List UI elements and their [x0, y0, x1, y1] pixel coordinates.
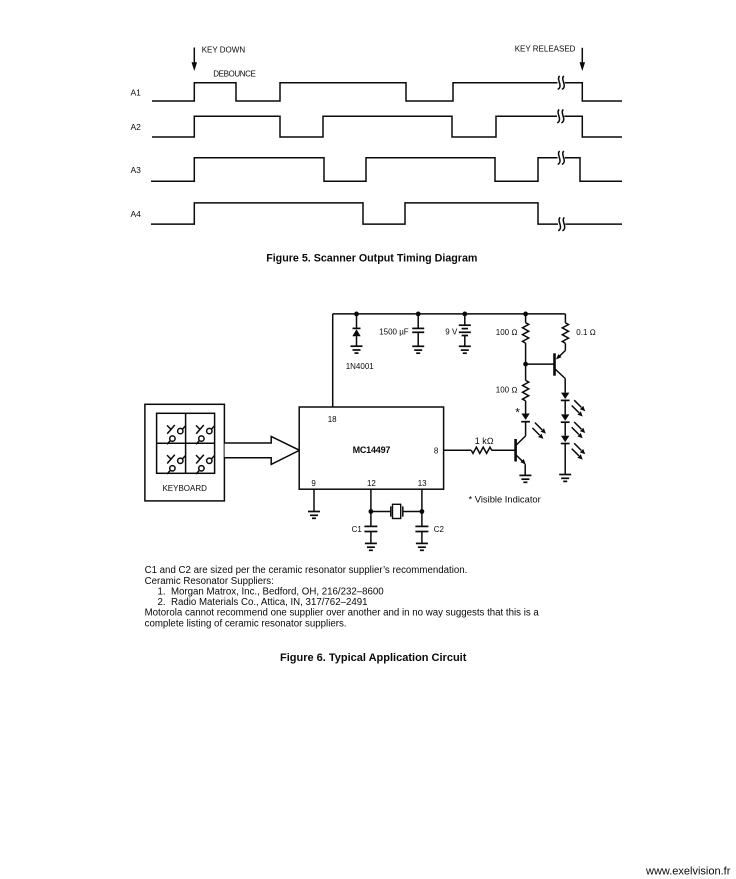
ground C2: [416, 543, 428, 550]
wire pin 9: [313, 489, 315, 511]
wire diode branch: [356, 314, 358, 329]
node junction pin 13: [420, 509, 425, 514]
crystal Y1 ceramic resonator: [391, 504, 403, 518]
svg-text:KEY DOWN: KEY DOWN: [202, 45, 246, 54]
wire pin 13: [421, 489, 423, 511]
node junction pin 12: [369, 509, 374, 514]
svg-text:C1 and C2 are sized per the ce: C1 and C2 are sized per the ceramic reso…: [145, 565, 468, 576]
key switch S1: [167, 425, 185, 444]
wire R2 to Q2 emitter: [556, 343, 566, 359]
key switch S3: [167, 455, 185, 474]
wire D4 to D5: [564, 422, 566, 436]
capacitor C2: [415, 512, 428, 544]
svg-text:Figure 5. Scanner Output Timin: Figure 5. Scanner Output Timing Diagram: [266, 252, 477, 264]
wire pin 18 riser: [332, 314, 334, 407]
capacitor C3 1500uF: [412, 314, 424, 346]
svg-text:0.1 Ω: 0.1 Ω: [576, 328, 596, 337]
LED D4: [561, 414, 570, 422]
wire V+ top rail: [333, 313, 566, 315]
ground diode: [351, 346, 363, 353]
node junction R1: [523, 312, 528, 317]
svg-text:1. Morgan Matrox, Inc., Bedfo: 1. Morgan Matrox, Inc., Bedford, OH, 216…: [158, 586, 385, 597]
node junction Q2 base: [523, 362, 528, 367]
LED D3: [561, 393, 570, 401]
break symbol on A3: [558, 151, 565, 164]
ground capacitor: [412, 346, 424, 353]
waveform A4: [151, 203, 622, 224]
waveform A3: [151, 158, 622, 181]
keyboard matrix grid: [157, 413, 215, 473]
op-amp U1 MC14497 box: [299, 407, 443, 489]
svg-text:KEYBOARD: KEYBOARD: [162, 484, 207, 493]
svg-text:1N4001: 1N4001: [346, 362, 375, 371]
resistor R4 1 kohm: [471, 447, 491, 453]
svg-text:9 V: 9 V: [445, 328, 458, 337]
break symbol on A1: [558, 76, 565, 89]
resistor R2 0.1 ohm: [562, 323, 568, 343]
waveform A2: [152, 116, 622, 137]
light arrows D2: [532, 423, 546, 439]
wire D2 to Q1 collector: [516, 422, 526, 446]
transistor Q1 NPN: [516, 439, 526, 475]
transistor Q2 PNP: [555, 353, 566, 392]
svg-text:C1: C1: [352, 525, 363, 534]
svg-text:www.exelvision.fr: www.exelvision.fr: [645, 866, 731, 878]
svg-text:9: 9: [311, 479, 316, 488]
arrow key released: [580, 48, 586, 71]
svg-text:8: 8: [434, 446, 439, 455]
svg-text:C2: C2: [434, 525, 445, 534]
LED D5: [561, 436, 570, 444]
wire rail corner to R2: [564, 314, 566, 323]
svg-text:Figure 6. Typical Application: Figure 6. Typical Application Circuit: [280, 652, 467, 664]
ground battery: [459, 346, 471, 353]
svg-text:A4: A4: [131, 209, 142, 219]
node junction battery: [462, 312, 467, 317]
wire D5 to ground: [564, 444, 566, 475]
svg-text:2. Radio Materials Co., Attic: 2. Radio Materials Co., Attica, IN, 317/…: [158, 597, 368, 608]
svg-text:complete listing of ceramic re: complete listing of ceramic resonator su…: [145, 618, 347, 629]
wire pin 8 to R4: [444, 449, 472, 451]
ground LED chain: [559, 475, 571, 482]
diode D1 1N4001: [352, 328, 360, 346]
svg-text:12: 12: [367, 479, 376, 488]
ground C1: [365, 543, 377, 550]
svg-text:A2: A2: [131, 122, 142, 132]
bus arrow keyboard to IC: [225, 436, 300, 464]
wire D3 to D4: [564, 400, 566, 414]
capacitor C1: [364, 512, 377, 544]
LED D2 visible indicator: [521, 414, 530, 422]
svg-text:A1: A1: [131, 87, 142, 97]
svg-text:Motorola cannot recommend one: Motorola cannot recommend one supplier o…: [145, 608, 540, 619]
svg-text:Ceramic Resonator Suppliers:: Ceramic Resonator Suppliers:: [145, 576, 274, 587]
resistor R3 100 ohm: [522, 364, 528, 413]
wire R4 to Q1 base: [492, 449, 516, 451]
resistor R1 100 ohm: [522, 314, 528, 364]
battery BT1 9V: [459, 314, 471, 346]
ground Q1 emitter: [519, 475, 531, 482]
ground pin 9: [308, 512, 320, 519]
light arrows D5: [572, 443, 586, 459]
key switch S4: [196, 455, 214, 474]
wire resonator left: [371, 511, 391, 513]
arrow key down: [192, 48, 198, 72]
keyboard outer box: [145, 404, 225, 501]
wire pin 12: [370, 489, 372, 511]
wire resonator right: [403, 511, 422, 513]
node junction capacitor: [416, 312, 421, 317]
svg-text:KEY RELEASED: KEY RELEASED: [515, 44, 576, 53]
svg-text:18: 18: [328, 415, 337, 424]
svg-text:100 Ω: 100 Ω: [496, 385, 518, 394]
key switch S2: [196, 425, 214, 444]
svg-text:*: *: [515, 406, 520, 420]
light arrows D4: [572, 422, 586, 438]
svg-text:A3: A3: [131, 165, 142, 175]
break symbol on A2: [557, 110, 564, 123]
light arrows D3: [572, 400, 586, 416]
waveform A1: [152, 83, 622, 101]
svg-text:1500 µF: 1500 µF: [379, 328, 409, 337]
svg-text:100 Ω: 100 Ω: [496, 328, 518, 337]
svg-text:1 kΩ: 1 kΩ: [475, 436, 494, 446]
svg-text:* Visible Indicator: * Visible Indicator: [469, 494, 541, 505]
wire Q2 base: [526, 363, 555, 365]
svg-text:MC14497: MC14497: [353, 445, 391, 455]
break symbol on A4: [558, 217, 565, 230]
node junction diode: [354, 312, 359, 317]
svg-text:13: 13: [418, 479, 427, 488]
svg-text:DEBOUNCE: DEBOUNCE: [213, 70, 255, 79]
